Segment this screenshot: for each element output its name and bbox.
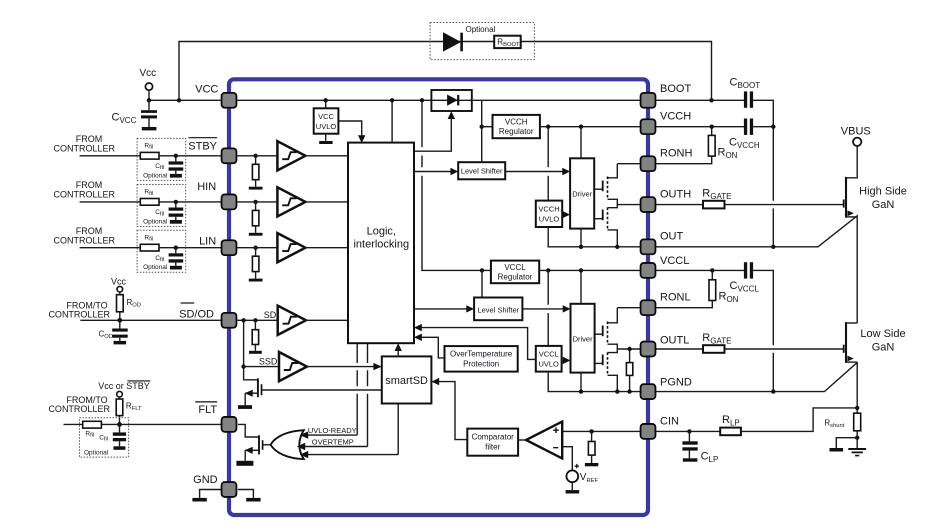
svg-text:Optional: Optional [143,264,168,271]
block Comparator filter [467,429,518,456]
svg-text:RONL: RONL [660,292,691,304]
wire boot rail down to VCCH regulator and LS1 [481,100,483,162]
svg-text:GND: GND [193,474,218,486]
node Vcc/CVCC junction [147,98,151,102]
node LIN pulldown junction [253,246,257,250]
node HIN pulldown junction [253,200,257,204]
pin STBY [222,148,237,163]
input row HIN: FROM CONTROLLER [54,180,116,199]
wire LS2 supply drop [481,270,483,297]
wire driver2 supply [580,270,582,303]
capacitor Cfil LIN with ground [143,248,183,272]
label Low Side GaN [860,328,905,354]
node bootstrap return junction [709,98,713,102]
svg-text:filter: filter [485,443,500,452]
label pin SD/OD with overline on SD [179,303,214,320]
schmitt buffer LIN [277,233,305,262]
resistor LIN pulldown with ground [249,248,263,282]
svg-text:Level Shifter: Level Shifter [461,167,503,176]
wire CVCCH to switch node drop [753,126,773,128]
node LIN Cfil junction [174,246,178,250]
svg-text:Regulator: Regulator [499,127,534,136]
block VCCL UVLO [536,346,562,372]
svg-text:GaN: GaN [872,199,895,211]
wire VCCL UVLO reference to PGND rail [548,372,640,392]
svg-text:Level Shifter: Level Shifter [477,306,519,315]
svg-text:High Side: High Side [859,186,907,198]
schmitt buffer SSD [279,352,307,381]
svg-text:CONTROLLER: CONTROLLER [48,310,110,320]
wire VCCH regulator input [482,126,493,128]
wire SD/OD down to SSD branch [243,320,245,366]
svg-text:UVLO-READY: UVLO-READY [308,426,357,435]
node SD branch junction [241,318,245,322]
wire VCC internal rail (VCC pin to BOOT pin) [237,99,640,101]
wire RONH pin to high FET drain [617,163,640,165]
svg-text:Rfil: Rfil [144,234,153,242]
svg-text:VCCH: VCCH [660,111,691,123]
Vcc pull-up terminal for ROD [111,277,127,293]
terminal VBUS [841,126,871,146]
wire HIN buffer to logic [305,201,348,203]
wire CIN pin to RLP [656,430,720,432]
wire high source to low drain [856,217,858,323]
schmitt buffer HIN [277,187,305,216]
capacitor CVCCH [729,119,760,151]
pin SD/OD [222,313,237,328]
wire SD/OD input [80,319,221,321]
transistor output stage high side (totem pole) [594,164,617,247]
wire LIN buffer to logic [305,247,348,249]
wire UVLO-READY into OR gate [300,431,357,438]
node SD pulldown junction [253,318,257,322]
pin OUT [641,239,656,254]
wire smartSD bottom to OR input [397,404,399,455]
pin VCCL [641,263,656,278]
svg-text:Optional: Optional [466,25,496,34]
node driver2 supply tap [579,268,583,272]
pin OUTH [641,197,656,212]
voltage source VREF [562,447,598,494]
wire SSD buffer to smartSD with arrow [307,363,382,370]
optional RC filter box LIN [137,230,186,272]
svg-text:Cfil: Cfil [99,435,108,443]
node SSD junction [241,364,245,368]
wire logic to bootstrap diode control with arrow [414,111,455,151]
wire STBY pin to buffer [237,155,277,157]
schmitt buffer SD [278,306,306,335]
resistor RON low [656,270,739,307]
row FLT: FROM/TO CONTROLLER [48,395,110,414]
node VCCL UVLO supply tap [546,268,550,272]
svg-text:CONTROLLER: CONTROLLER [48,404,110,414]
block Level Shifter low side [474,298,522,321]
node VCCH regulator input [480,125,484,129]
wire VCCH regulator output to VCCH pin [540,126,640,128]
pin LIN [222,240,237,255]
svg-text:VCCH: VCCH [538,204,559,213]
wire LS1 to driver1 with arrow [505,168,570,175]
transistor output stage low side (totem pole) [595,308,618,392]
pin GND [222,482,237,497]
wire OUTH pin to totem pole node [617,204,640,206]
svg-text:Comparator: Comparator [472,433,515,442]
optional dashed box (bootstrap diode + RBOOT) [430,23,534,60]
IC boundary (gate driver chip outline) [229,79,648,515]
pin BOOT [641,93,656,108]
node switch drop to OUT [771,245,775,249]
OR gate fault combiner (mirrored, output left) [271,430,304,459]
wire shunt bottom connections [836,431,857,448]
wire FLT input [64,423,222,425]
wire VCCH UVLO reference to OUT rail [548,227,640,247]
node RON low tap [710,268,714,272]
wire VCCL UVLO to driver2 with arrow [562,357,571,364]
row SD/OD: FROM/TO CONTROLLER [48,301,110,320]
wire BOOT pin to CBOOT [656,99,744,101]
svg-text:smartSD: smartSD [385,375,428,387]
wire OUTL pin through RGATE to low gate [656,348,844,350]
node CVCCH on switch node drop [771,125,775,129]
svg-text:Optional: Optional [84,450,109,457]
svg-text:GaN: GaN [872,342,895,354]
wire HIN input [80,201,221,203]
node OUTL pulldown top [627,347,631,351]
svg-text:OUTL: OUTL [660,334,689,346]
wire OUTL pin to totem pole node [617,348,640,350]
resistor SD pulldown with ground [249,320,262,354]
svg-text:CONTROLLER: CONTROLLER [54,144,116,154]
wire VCCH UVLO to driver1 with arrow [562,211,570,218]
svg-text:OUTH: OUTH [660,188,691,200]
block VCCL Regulator [491,261,539,284]
svg-text:OVERTEMP: OVERTEMP [312,437,354,446]
pin HIN [222,194,237,209]
wire logic to LS2 with arrow [414,305,474,312]
wire STBY input [80,155,221,157]
pin PGND [641,384,656,399]
wire CBOOT to switch node drop [753,100,773,247]
wire LIN pin to buffer [237,247,277,249]
pin RONH [641,156,656,171]
resistor Rshunt [824,413,860,431]
GND pin external grounds [192,490,260,502]
capacitor CLP with ground [682,431,718,464]
label High Side GaN [859,186,907,212]
wire VCC up to optional bootstrap path [179,42,712,101]
svg-text:CONTROLLER: CONTROLLER [54,235,116,245]
node totem pole return on PGND rail [615,389,619,393]
wire VCCL pin to CVCCL [656,269,744,271]
svg-text:LIN: LIN [199,236,216,248]
node VCCH UVLO supply tap [546,125,550,129]
wire VCCH pin to CVCCH [656,126,744,128]
pin RONL [641,300,656,315]
wire low source down to shunt [856,362,858,413]
transistor low side GaN [844,322,858,363]
node shunt top [855,406,859,410]
transistor high side GaN [844,146,858,218]
svg-text:VCC: VCC [318,112,334,121]
resistor OUTL pulldown [626,349,632,392]
diode box internal bootstrap [431,90,471,111]
wire VCC rail down to VCCL regulator [422,100,491,270]
svg-text:UVLO: UVLO [316,122,337,131]
block VCCH Regulator [493,115,540,138]
resistor RGATE low [702,332,731,353]
block Level Shifter high side [458,162,505,179]
resistor Rfil STBY [140,143,159,160]
wire Vcc terminal to VCC pin [149,90,221,100]
wire SD/OD pin to buffer [237,319,278,321]
wire RLP to shunt top [741,408,857,432]
pin FLT [222,417,237,432]
wire overtemp to logic with arrow [414,334,445,358]
wire logic to LS1 with arrow [414,168,458,175]
node totem pole return on OUT rail [615,245,619,249]
svg-text:Optional: Optional [143,172,168,179]
pin VCC [222,93,237,108]
node shunt bottom [855,436,859,440]
optional RC filter box STBY [137,138,186,180]
transistor Q-SSD open-drain on SD/OD [238,367,262,409]
wire VCC UVLO to logic with arrow [338,121,365,143]
svg-text:SSD: SSD [259,356,278,366]
node logic supply tap [390,98,394,102]
ground earth below shunt [848,449,866,456]
wire smartSD to Q-SSD gate [262,389,382,391]
svg-text:VCCL: VCCL [539,349,559,358]
svg-text:Logic,: Logic, [367,226,396,238]
wire UVLO-READY vertical from logic [356,343,358,435]
wire driver1 supply [580,127,582,159]
svg-text:RONH: RONH [660,148,692,160]
wire OVERTEMP into OR gate [297,443,368,450]
wire RONL pin to low FET drain [617,307,640,309]
schmitt buffer STBY [277,141,305,170]
diode optional bootstrap [443,32,462,51]
svg-text:interlocking: interlocking [353,239,409,251]
svg-text:Cfil: Cfil [155,255,164,263]
svg-text:CONTROLLER: CONTROLLER [54,190,116,200]
svg-text:Vcc or STBY: Vcc or STBY [98,381,150,391]
wire SD buffer to logic [306,319,348,321]
wire OUT pin to switch node with diagonal [656,216,857,247]
pin VCCH [641,119,656,134]
node CLP junction [687,429,691,433]
svg-text:VCCL: VCCL [504,263,526,272]
svg-text:VCC: VCC [195,84,218,96]
wire driver1 return [580,229,582,247]
wire STBY buffer to logic [305,155,348,157]
wire smartSD to logic with arrow [395,343,402,356]
block smartSD [382,356,432,403]
wire VCCL to VCCL UVLO [547,270,549,346]
wire LIN input [80,247,221,249]
svg-text:Rfil: Rfil [144,189,153,197]
capacitor Cfil HIN with ground [143,202,183,226]
svg-text:VCCH: VCCH [505,117,528,126]
svg-text:PGND: PGND [660,376,692,388]
svg-text:Optional: Optional [143,218,168,225]
resistor RGATE high [702,188,731,209]
resistor HIN pulldown with ground [249,202,263,236]
capacitor CBOOT [730,77,761,108]
node OUTL pulldown bottom [627,389,631,393]
node comparator input pulldown [589,429,593,433]
resistor ROD [117,292,141,320]
op-amp comparator current sense [526,422,562,459]
Vcc supply terminal [140,68,157,90]
svg-text:Rfil: Rfil [144,143,153,151]
svg-text:CIN: CIN [660,416,679,428]
node STBY pulldown junction [253,154,257,158]
label pin FLT with overline [195,402,217,416]
optional RC filter box FLT [80,418,129,457]
block Logic interlocking [348,143,414,344]
resistor comparator input pulldown with ground [585,431,598,466]
svg-text:Driver: Driver [573,335,594,344]
block Driver low side [571,304,595,373]
resistor RFLT [116,397,142,424]
capacitor Cfil FLT with ground [84,424,126,456]
node HIN Cfil junction [174,200,178,204]
resistor RON high [656,127,738,164]
svg-text:BOOT: BOOT [660,83,691,95]
svg-text:OUT: OUT [660,231,684,243]
svg-text:OverTemperature: OverTemperature [450,349,513,358]
node VCC to bootstrap branch [177,98,181,102]
svg-text:Regulator: Regulator [498,273,533,282]
Vcc or STBY pull-up terminal [98,381,150,397]
wire smartSD fault into OR gate [300,451,398,458]
wire LS2 to driver2 with arrow [522,305,570,312]
node driver1 return on OUT rail [579,245,583,249]
node SD/OD external junction [117,318,122,323]
resistor Rfil LIN [140,234,159,251]
wire OVERTEMP vertical from logic [367,343,369,446]
node VCCL regulator tap [420,98,424,102]
wire VCCH to VCCH UVLO [547,127,549,201]
resistor RBOOT [494,36,521,48]
svg-text:HIN: HIN [197,181,216,193]
resistor RLP [720,414,741,435]
wire CVCCL to PGND drop [753,270,773,391]
wire CIN pin to comparator plus [562,430,640,432]
svg-text:Driver: Driver [572,190,593,199]
svg-text:VBUS: VBUS [841,126,871,138]
svg-text:UVLO: UVLO [539,214,560,223]
wire OR gate output to Q-FLT gate [263,444,272,446]
transistor Q-FLT open-drain on FLT [236,424,262,465]
svg-text:Vcc: Vcc [140,68,157,79]
node driver1 supply tap [579,125,583,129]
wire driver2 return [580,373,582,392]
ground bar left of shunt [830,448,844,452]
svg-text:SD/OD: SD/OD [179,308,214,320]
block Driver high side [570,158,594,228]
node driver2 return on PGND rail [579,389,583,393]
svg-text:Protection: Protection [463,359,499,368]
optional RC filter box HIN [137,185,186,227]
node STBY Cfil junction [174,154,178,158]
svg-text:SD: SD [264,310,277,320]
input row LIN: FROM CONTROLLER [54,226,116,245]
capacitor CVCCL [730,262,760,293]
pin CIN [641,424,656,439]
wire HIN pin to buffer [237,201,277,203]
resistor Rfil FLT [83,421,102,438]
svg-text:Cfil: Cfil [155,163,164,171]
node FLT external junction [117,422,122,427]
wire OUTH pin through RGATE to high gate [656,204,844,206]
node VCC UVLO tap [324,98,328,102]
label pin STBY with overline [188,138,217,153]
capacitor CVCC [112,100,158,130]
wire comparator output to filter [518,439,526,441]
svg-text:UVLO: UVLO [538,359,559,368]
node RON high tap [710,125,714,129]
svg-text:Rfil: Rfil [85,431,94,439]
resistor STBY pulldown with ground [249,156,263,190]
capacitor COD with ground [99,320,128,344]
wire VCCL regulator output to VCCL pin [539,269,640,271]
wire VCC supply into logic [391,100,393,142]
wire comparator filter to smartSD with arrow [431,378,467,440]
svg-text:VCCL: VCCL [660,255,689,267]
block VCC UVLO [314,100,339,144]
capacitor Cfil STBY with ground [143,156,183,180]
node LS2 supply tap [480,268,484,272]
wire PGND pin to low source with diagonal [656,362,857,392]
wire VCCL UVLO feedback to logic with arrow [414,324,536,360]
pin OUTL [641,342,656,357]
block OverTemperature Protection [445,346,518,372]
svg-text:STBY: STBY [188,141,217,153]
node PGND drop junction [771,389,775,393]
block VCCH UVLO [536,201,562,227]
svg-text:Low Side: Low Side [860,328,905,340]
resistor Rfil HIN [140,189,159,206]
svg-text:Cfil: Cfil [155,209,164,217]
input row STBY: FROM CONTROLLER [54,134,116,153]
svg-text:Vcc: Vcc [111,277,127,287]
wire SSD junction to buffer [244,366,279,368]
svg-text:FLT: FLT [198,404,217,416]
